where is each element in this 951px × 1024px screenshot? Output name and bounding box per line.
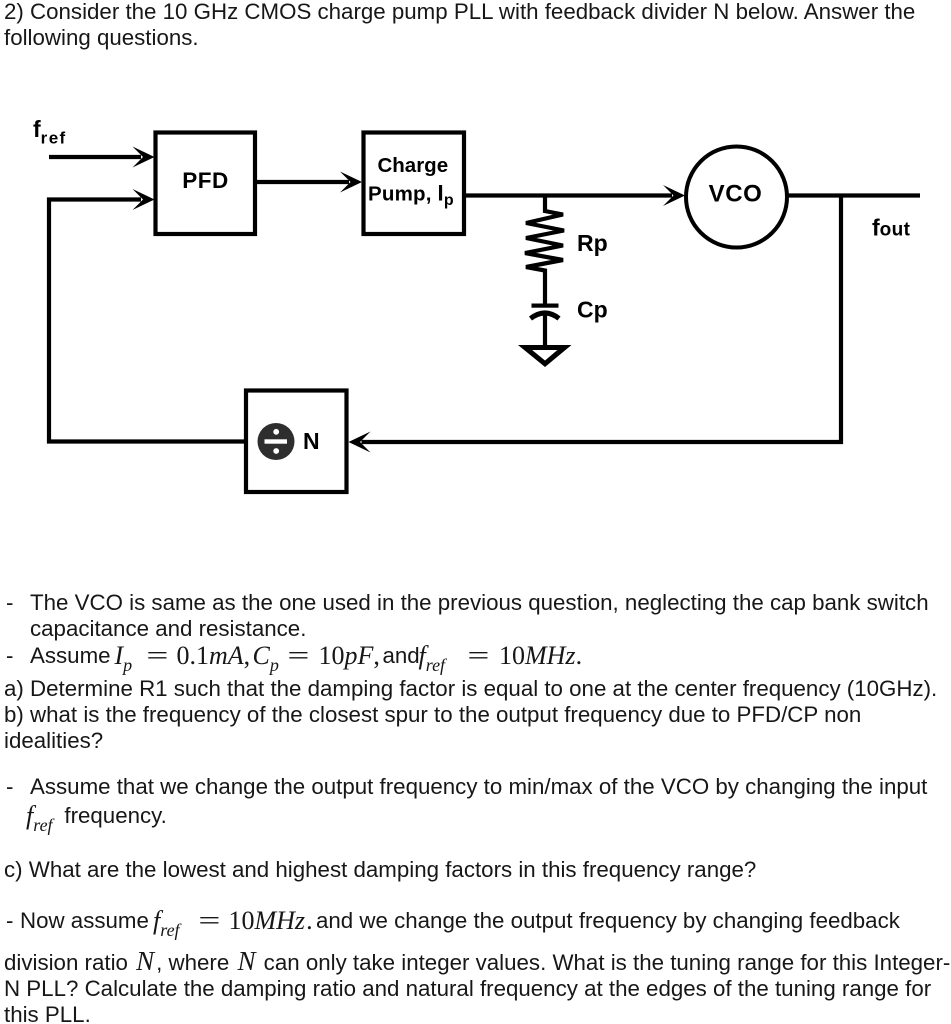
wire charge pump to VCO [466, 185, 685, 206]
svg-text:PFD: PFD [182, 168, 229, 193]
svg-text:Rp: Rp [577, 230, 608, 256]
svg-text:fref: fref [33, 116, 67, 148]
svg-text:Pump, Ip: Pump, Ip [368, 181, 454, 210]
c) [4, 857, 756, 883]
wire divider output left and up to PFD second input [49, 189, 246, 442]
resistor Rp [525, 196, 564, 305]
wire feedback from output node down and left to divider [349, 196, 842, 453]
label Rp [577, 230, 608, 256]
label Cp [577, 297, 608, 323]
ground [518, 345, 572, 367]
a) b) idealities [4, 676, 937, 754]
bullet: change output frequency [6, 774, 13, 800]
top problem statement [4, 0, 915, 51]
final bullet paragraph line 1 [6, 908, 13, 934]
node fref [33, 116, 67, 148]
PFD U1 [156, 133, 256, 235]
svg-text:fout: fout [872, 215, 911, 241]
svg-text:Cp: Cp [577, 297, 608, 323]
bullet: VCO same as previous [6, 590, 13, 616]
node fout [872, 215, 911, 241]
final paragraph continuation [4, 950, 950, 1024]
wire fref input arrow to PFD [49, 147, 155, 168]
VCO U3 [686, 147, 787, 248]
capacitor Cp [531, 304, 560, 346]
divider N box [246, 391, 347, 493]
svg-text:N: N [303, 428, 320, 454]
svg-text:VCO: VCO [709, 181, 763, 208]
wire VCO output to fout node [787, 193, 920, 197]
circuit diagram [0, 0, 951, 560]
bullet: assume values (math line) [6, 643, 13, 669]
svg-text:Charge: Charge [377, 154, 448, 177]
charge pump U2, Ip [364, 133, 465, 235]
wire PFD output to charge pump [257, 172, 362, 193]
